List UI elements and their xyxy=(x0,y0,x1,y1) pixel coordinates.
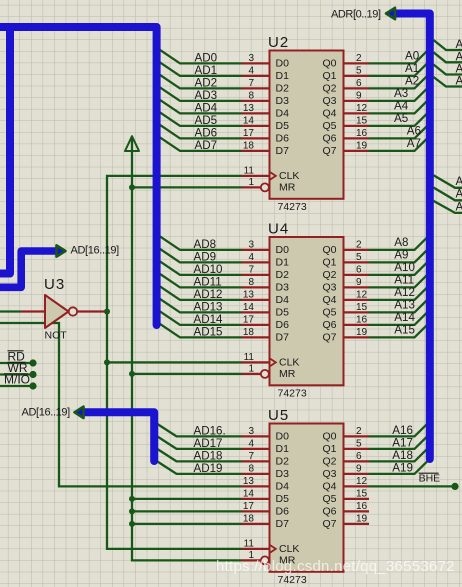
svg-text:D4: D4 xyxy=(276,294,290,306)
svg-text:19: 19 xyxy=(356,141,368,152)
svg-text:AD8: AD8 xyxy=(194,238,217,251)
svg-text:A7: A7 xyxy=(407,137,421,150)
svg-text:15: 15 xyxy=(356,116,368,127)
svg-text:AD11: AD11 xyxy=(194,275,222,288)
svg-text:6: 6 xyxy=(356,265,362,276)
svg-text:3: 3 xyxy=(248,53,254,64)
svg-text:A13: A13 xyxy=(394,298,415,311)
svg-text:AD4: AD4 xyxy=(195,101,218,114)
svg-text:18: 18 xyxy=(243,327,255,338)
svg-text:AD19: AD19 xyxy=(194,462,223,475)
svg-text:5: 5 xyxy=(356,252,362,263)
svg-text:16: 16 xyxy=(356,315,368,326)
svg-text:A2: A2 xyxy=(405,75,419,88)
svg-text:D3: D3 xyxy=(276,282,290,294)
svg-text:D0: D0 xyxy=(276,431,290,443)
svg-text:D7: D7 xyxy=(276,332,290,344)
svg-text:AD5: AD5 xyxy=(195,114,218,127)
svg-text:Q4: Q4 xyxy=(322,481,336,493)
svg-text:2: 2 xyxy=(356,53,362,64)
svg-text:Q3: Q3 xyxy=(322,282,336,294)
svg-text:19: 19 xyxy=(356,514,368,525)
svg-text:ADR[0..19]: ADR[0..19] xyxy=(331,9,381,21)
svg-text:AD16.: AD16. xyxy=(194,424,226,437)
svg-text:U2: U2 xyxy=(268,34,289,51)
svg-text:Q5: Q5 xyxy=(322,120,336,132)
svg-text:16: 16 xyxy=(356,128,368,139)
svg-text:AD18: AD18 xyxy=(194,449,223,462)
svg-text:18: 18 xyxy=(243,514,255,525)
svg-text:A4: A4 xyxy=(394,100,409,113)
svg-text:AD15: AD15 xyxy=(194,325,223,338)
svg-text:Q2: Q2 xyxy=(322,83,336,95)
svg-text:Q6: Q6 xyxy=(322,133,336,145)
svg-text:CLK: CLK xyxy=(279,357,299,369)
svg-text:13: 13 xyxy=(243,476,255,487)
svg-text:Q1: Q1 xyxy=(322,443,336,455)
svg-text:4: 4 xyxy=(248,252,254,263)
svg-text:Q0: Q0 xyxy=(322,244,336,256)
svg-text:NOT: NOT xyxy=(45,330,68,342)
svg-text:Q4: Q4 xyxy=(322,108,336,120)
svg-text:2: 2 xyxy=(356,426,362,437)
svg-text:6: 6 xyxy=(356,78,362,89)
svg-text:BHE: BHE xyxy=(419,472,441,484)
svg-text:7: 7 xyxy=(248,78,254,89)
svg-text:6: 6 xyxy=(356,451,362,462)
svg-text:Q7: Q7 xyxy=(322,332,336,344)
svg-text:D7: D7 xyxy=(276,518,290,530)
svg-text:AD1: AD1 xyxy=(195,64,218,77)
svg-text:19: 19 xyxy=(356,327,368,338)
svg-text:A12: A12 xyxy=(394,286,415,299)
svg-text:A17: A17 xyxy=(392,437,413,450)
svg-text:74273: 74273 xyxy=(278,574,307,586)
svg-text:1: 1 xyxy=(248,364,254,375)
svg-text:74273: 74273 xyxy=(278,388,307,400)
svg-text:A10: A10 xyxy=(394,261,415,274)
svg-text:D4: D4 xyxy=(276,108,290,120)
svg-text:A5: A5 xyxy=(394,112,408,125)
svg-text:5: 5 xyxy=(356,439,362,450)
svg-text:Q1: Q1 xyxy=(322,257,336,269)
svg-text:Q6: Q6 xyxy=(322,506,336,518)
svg-text:17: 17 xyxy=(243,501,255,512)
svg-text:D6: D6 xyxy=(276,319,290,331)
svg-text:D2: D2 xyxy=(276,83,290,95)
svg-text:D1: D1 xyxy=(276,70,290,82)
svg-text:7: 7 xyxy=(248,451,254,462)
svg-text:9: 9 xyxy=(356,464,362,475)
svg-text:CLK: CLK xyxy=(279,170,299,182)
svg-text:Q5: Q5 xyxy=(322,307,336,319)
svg-text:12: 12 xyxy=(356,290,368,301)
svg-text:14: 14 xyxy=(243,302,255,313)
svg-text:A14: A14 xyxy=(394,311,415,324)
svg-text:13: 13 xyxy=(243,290,255,301)
svg-text:A3: A3 xyxy=(394,87,408,100)
svg-text:D2: D2 xyxy=(276,269,290,281)
svg-text:D0: D0 xyxy=(276,244,290,256)
svg-text:AD[16..19]: AD[16..19] xyxy=(22,407,71,419)
svg-text:11: 11 xyxy=(244,539,255,550)
svg-text:17: 17 xyxy=(243,315,255,326)
svg-text:A19: A19 xyxy=(392,462,413,475)
svg-text:5: 5 xyxy=(356,66,362,77)
svg-text:16: 16 xyxy=(356,501,368,512)
svg-text:8: 8 xyxy=(248,464,254,475)
svg-text:AD10: AD10 xyxy=(194,263,223,276)
svg-text:AD14: AD14 xyxy=(194,313,224,326)
svg-text:U3: U3 xyxy=(44,276,65,293)
svg-text:12: 12 xyxy=(356,476,368,487)
svg-text:https://blog.csdn.net/qq_36553: https://blog.csdn.net/qq_36553672 xyxy=(216,558,455,575)
svg-text:D0: D0 xyxy=(276,58,290,70)
svg-text:AD3: AD3 xyxy=(195,89,218,102)
svg-text:Q0: Q0 xyxy=(322,431,336,443)
svg-text:15: 15 xyxy=(356,302,368,313)
svg-text:M/IO: M/IO xyxy=(4,373,30,387)
svg-text:AD17: AD17 xyxy=(194,437,223,450)
svg-text:Q5: Q5 xyxy=(322,493,336,505)
svg-text:U4: U4 xyxy=(268,220,289,237)
svg-text:AD12: AD12 xyxy=(194,288,223,301)
svg-text:A8: A8 xyxy=(456,175,462,188)
svg-text:A18: A18 xyxy=(392,449,413,462)
svg-text:15: 15 xyxy=(356,489,368,500)
svg-text:Q7: Q7 xyxy=(322,145,336,157)
svg-text:D6: D6 xyxy=(276,506,290,518)
svg-text:74273: 74273 xyxy=(278,201,307,213)
svg-text:7: 7 xyxy=(248,265,254,276)
svg-text:D3: D3 xyxy=(276,468,290,480)
svg-text:U5: U5 xyxy=(268,407,289,424)
svg-text:A0: A0 xyxy=(456,38,462,51)
svg-text:Q6: Q6 xyxy=(322,319,336,331)
svg-text:A11: A11 xyxy=(394,273,414,286)
svg-text:AD7: AD7 xyxy=(195,139,218,152)
svg-text:12: 12 xyxy=(356,103,368,114)
svg-text:AD13: AD13 xyxy=(194,300,223,313)
svg-text:AD0: AD0 xyxy=(195,51,218,64)
svg-text:1: 1 xyxy=(248,177,254,188)
svg-text:17: 17 xyxy=(243,128,255,139)
svg-text:A0: A0 xyxy=(405,50,419,63)
svg-text:MR: MR xyxy=(279,368,296,380)
svg-text:D6: D6 xyxy=(276,133,290,145)
svg-text:9: 9 xyxy=(356,91,362,102)
svg-text:A3: A3 xyxy=(456,75,462,88)
svg-text:D1: D1 xyxy=(276,443,290,455)
svg-text:3: 3 xyxy=(248,426,254,437)
svg-text:4: 4 xyxy=(248,439,254,450)
svg-text:D2: D2 xyxy=(276,456,290,468)
svg-text:9: 9 xyxy=(356,277,362,288)
svg-text:18: 18 xyxy=(243,141,255,152)
svg-text:D5: D5 xyxy=(276,493,290,505)
svg-text:A6: A6 xyxy=(407,125,421,138)
svg-text:14: 14 xyxy=(243,116,255,127)
svg-text:11: 11 xyxy=(244,352,255,363)
svg-text:A15: A15 xyxy=(394,323,415,336)
svg-text:D1: D1 xyxy=(276,257,290,269)
svg-text:A16: A16 xyxy=(392,424,413,437)
svg-text:3: 3 xyxy=(248,240,254,251)
svg-text:13: 13 xyxy=(243,103,255,114)
svg-text:CLK: CLK xyxy=(279,543,299,555)
svg-text:Q2: Q2 xyxy=(322,456,336,468)
svg-text:Q4: Q4 xyxy=(322,294,336,306)
svg-text:14: 14 xyxy=(243,489,255,500)
svg-text:AD6: AD6 xyxy=(195,126,218,139)
svg-text:AD2: AD2 xyxy=(195,76,218,89)
svg-text:2: 2 xyxy=(356,240,362,251)
svg-text:A9: A9 xyxy=(394,248,408,261)
svg-text:MR: MR xyxy=(279,182,296,194)
svg-text:AD[16..19]: AD[16..19] xyxy=(71,245,120,257)
svg-text:Q0: Q0 xyxy=(322,58,336,70)
svg-text:A8: A8 xyxy=(394,236,408,249)
svg-text:D3: D3 xyxy=(276,95,290,107)
svg-text:D7: D7 xyxy=(276,145,290,157)
svg-text:8: 8 xyxy=(248,277,254,288)
svg-text:A1: A1 xyxy=(456,50,462,63)
svg-text:Q1: Q1 xyxy=(322,70,336,82)
svg-text:A1: A1 xyxy=(405,62,419,75)
svg-text:Q3: Q3 xyxy=(322,468,336,480)
svg-text:D5: D5 xyxy=(276,307,290,319)
svg-text:Q3: Q3 xyxy=(322,95,336,107)
svg-text:11: 11 xyxy=(244,166,255,177)
svg-text:D5: D5 xyxy=(276,120,290,132)
svg-text:Q7: Q7 xyxy=(322,518,336,530)
svg-text:AD9: AD9 xyxy=(194,250,217,263)
svg-text:4: 4 xyxy=(248,66,254,77)
svg-text:8: 8 xyxy=(248,91,254,102)
svg-text:A9: A9 xyxy=(456,188,462,201)
svg-text:Q2: Q2 xyxy=(322,269,336,281)
svg-text:A10: A10 xyxy=(456,200,462,213)
svg-text:D4: D4 xyxy=(276,481,290,493)
